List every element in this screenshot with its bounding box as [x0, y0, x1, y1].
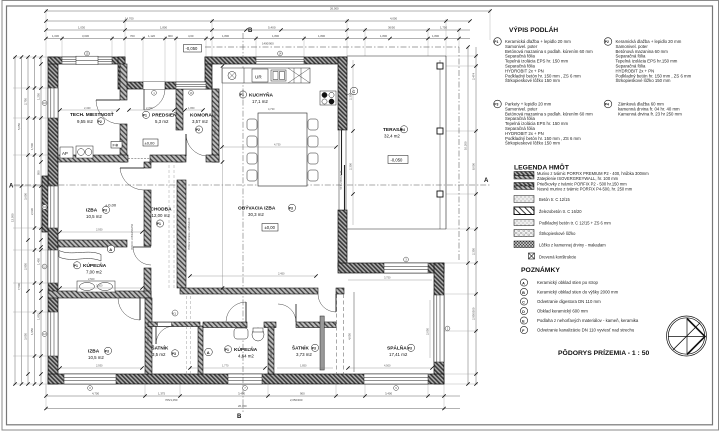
svg-text:C: C — [522, 300, 525, 304]
wall kupelna464 top horiz — [203, 322, 247, 328]
room label SATNIK 35 — [152, 344, 179, 358]
bottom dimension row 2 — [46, 408, 460, 410]
svg-text:ŠATNÍK: ŠATNÍK — [152, 344, 169, 351]
kupelna464 fixtures — [234, 328, 264, 341]
svg-text:P3: P3 — [408, 347, 412, 351]
top dimension row 2 — [46, 20, 470, 22]
svg-text:A: A — [207, 350, 210, 355]
kupelna7 twin basins — [77, 281, 115, 292]
svg-text:Betón tr. C 12/15: Betón tr. C 12/15 — [539, 197, 570, 202]
svg-text:4,730: 4,730 — [274, 142, 281, 146]
V1 circle — [172, 310, 178, 316]
svg-text:VÝPIS PODLÁH: VÝPIS PODLÁH — [509, 25, 558, 34]
note E — [520, 317, 527, 324]
wall spalna top — [338, 263, 444, 273]
tech room appliances — [60, 146, 93, 158]
svg-text:2,750: 2,750 — [24, 98, 28, 105]
logo north arrow — [667, 316, 707, 356]
room label KOMORA — [190, 113, 212, 134]
door satnik373 — [278, 304, 296, 322]
window left wall tech — [48, 88, 58, 118]
svg-text:P1: P1 — [157, 222, 161, 226]
svg-text:1,030: 1,030 — [78, 26, 85, 30]
door tech room — [96, 100, 120, 124]
svg-text:900: 900 — [168, 34, 173, 38]
left dimension col 2 — [21, 57, 23, 384]
svg-text:1,500: 1,500 — [30, 143, 34, 150]
room label SPALNA — [387, 344, 415, 358]
callout circle A kupelna464 — [205, 348, 213, 356]
window bottom wall spalna — [364, 374, 428, 384]
svg-text:2,950: 2,950 — [24, 263, 28, 270]
svg-text:1400/900: 1400/900 — [262, 42, 274, 46]
svg-text:2,050: 2,050 — [426, 328, 430, 335]
svg-text:4,050: 4,050 — [348, 333, 352, 340]
tiny interior dim texts — [84, 106, 391, 368]
legend swatch strkopiesok — [514, 230, 534, 237]
svg-text:3,030: 3,030 — [82, 34, 89, 38]
window bottom wall kupelna464 — [228, 374, 262, 384]
legend swatch podkladny beton — [514, 220, 534, 226]
svg-text:1,250: 1,250 — [37, 93, 41, 100]
wall predsien/komora — [176, 89, 183, 130]
wall left outer — [48, 57, 58, 384]
svg-text:2,950/300: 2,950/300 — [472, 307, 476, 320]
svg-text:Nosné murivo z tvárnic PORFIX: Nosné murivo z tvárnic PORFIX P4-500, hr… — [537, 186, 633, 191]
svg-text:7,00 m2: 7,00 m2 — [86, 270, 102, 275]
walls — [42, 57, 444, 384]
chodba dashed lines — [169, 165, 191, 374]
window spalna top wall (terrace door) — [384, 263, 428, 273]
door chodba-predsien opening — [128, 158, 150, 160]
svg-text:Drevená konštrukcie: Drevená konštrukcie — [539, 254, 577, 259]
svg-text:1,800: 1,800 — [318, 34, 325, 38]
svg-text:3,600: 3,600 — [24, 193, 28, 200]
wall chodba/obyvacia vert — [177, 180, 186, 288]
svg-text:5,400: 5,400 — [268, 26, 276, 30]
dimension ticks right — [466, 45, 477, 385]
elevation box entrance — [184, 45, 202, 53]
dimension ticks bottom — [44, 394, 445, 410]
P2 floor spec — [604, 38, 691, 83]
extension lines — [13, 9, 490, 410]
svg-text:F⊗: F⊗ — [113, 143, 119, 148]
dimension lines group — [15, 11, 490, 409]
svg-text:4,730: 4,730 — [268, 107, 275, 111]
window kitchen top — [256, 57, 304, 64]
svg-text:3,750: 3,750 — [384, 276, 391, 280]
bottom dimension row 1 — [46, 395, 460, 397]
svg-text:2,300: 2,300 — [349, 93, 353, 100]
svg-text:950: 950 — [37, 170, 41, 175]
kitchen counter — [222, 68, 310, 83]
wall obyvacia bottom horiz — [180, 288, 318, 294]
svg-text:PÔDORYS PRÍZEMIA - 1 : 50: PÔDORYS PRÍZEMIA - 1 : 50 — [558, 348, 649, 357]
svg-text:A: A — [484, 178, 489, 184]
legend swatch zelezobeton — [514, 207, 534, 215]
svg-text:Podlaha z nehorľavých materiál: Podlaha z nehorľavých materiálov - kameň… — [537, 318, 639, 323]
svg-text:PORFIX 1/250x250x750: PORFIX 1/250x250x750 — [131, 223, 134, 250]
svg-text:HST 1/3500x2100: HST 1/3500x2100 — [340, 170, 343, 190]
window left wall izba dolna — [48, 312, 58, 356]
room label KUCHYNA — [239, 91, 275, 112]
svg-text:P1: P1 — [143, 114, 147, 118]
door izba horna — [120, 168, 144, 190]
svg-text:4,500: 4,500 — [384, 364, 391, 368]
svg-text:B: B — [248, 28, 253, 34]
legend drevena konstrukcia — [529, 253, 535, 259]
svg-text:Keramický obklad stien do výšk: Keramický obklad stien do výšky 2000 mm — [537, 290, 619, 295]
svg-text:17,1 m2: 17,1 m2 — [252, 99, 268, 104]
svg-text:700: 700 — [130, 34, 135, 38]
right dimension col 2 — [475, 47, 477, 384]
svg-text:UR: UR — [255, 75, 262, 80]
svg-text:PORFIX 1/250x250x750: PORFIX 1/250x250x750 — [214, 108, 217, 135]
spalna thin partition line — [353, 292, 355, 372]
window spalna right wall — [434, 295, 444, 362]
left dimension col 1 — [14, 57, 16, 384]
svg-text:±0,00: ±0,00 — [265, 225, 276, 230]
right dimension col 1 — [467, 47, 469, 384]
svg-text:1,950: 1,950 — [30, 328, 34, 335]
terrace posts — [437, 63, 443, 197]
note C — [520, 298, 527, 305]
svg-text:1,030: 1,030 — [52, 34, 59, 38]
svg-text:4,60: 4,60 — [188, 34, 194, 38]
svg-text:Obklad keramický 600 mm: Obklad keramický 600 mm — [537, 309, 588, 314]
callout circle A kupelna7 — [107, 245, 115, 253]
room label SATNIK 373 — [292, 344, 319, 358]
door komora — [186, 134, 206, 156]
svg-text:30,3 m2: 30,3 m2 — [248, 212, 264, 217]
svg-text:5,050: 5,050 — [17, 123, 21, 130]
svg-text:2,930: 2,930 — [96, 228, 103, 232]
room label PREDSIEN — [142, 111, 177, 125]
room label CHODBA — [151, 207, 173, 228]
P1 floor spec — [494, 38, 593, 83]
svg-text:1,120: 1,120 — [148, 34, 155, 38]
svg-text:Odvetranie kanalizácie DN 110: Odvetranie kanalizácie DN 110 vyviesť na… — [537, 328, 635, 333]
svg-text:2,500: 2,500 — [88, 277, 95, 281]
svg-text:Štrkopieskové lôžko 150 mm: Štrkopieskové lôžko 150 mm — [505, 141, 560, 146]
wall block bottom horiz — [58, 155, 128, 162]
svg-text:Odvetranie digestora DN 110 mm: Odvetranie digestora DN 110 mm — [537, 299, 601, 304]
svg-text:4,000: 4,000 — [390, 17, 397, 21]
door spalna — [318, 294, 336, 312]
svg-text:POZNÁMKY: POZNÁMKY — [521, 265, 560, 274]
left dimension col 3 — [27, 57, 29, 384]
svg-text:P3: P3 — [289, 207, 293, 211]
svg-text:5,3 m2: 5,3 m2 — [155, 119, 169, 124]
terrace outline — [347, 56, 446, 229]
svg-text:2,500: 2,500 — [96, 284, 103, 288]
svg-text:1,800: 1,800 — [272, 34, 279, 38]
wall pilaster left — [42, 176, 48, 232]
svg-text:-0,050: -0,050 — [186, 46, 199, 51]
chairs right — [308, 119, 318, 181]
dimension ticks left — [13, 55, 42, 385]
svg-text:A: A — [9, 184, 14, 190]
svg-text:P1: P1 — [240, 93, 244, 97]
svg-text:P1: P1 — [74, 264, 78, 268]
wall step left of entrance — [118, 57, 125, 89]
svg-text:-0,050: -0,050 — [391, 157, 404, 162]
svg-text:D: D — [522, 310, 525, 314]
svg-text:V1: V1 — [172, 312, 176, 316]
svg-text:±0,00: ±0,00 — [145, 140, 156, 145]
dining table — [258, 113, 307, 186]
wall entrance recessed — [125, 82, 212, 89]
svg-text:26,000: 26,000 — [330, 7, 339, 11]
section line A-A — [14, 184, 490, 186]
svg-text:Keramický obklad stien po stro: Keramický obklad stien po strop — [537, 280, 599, 285]
P4 floor spec — [604, 100, 682, 116]
svg-text:Kamenná drvina fr. 23 hr 250: Kamenná drvina fr. 23 hr 250 mm — [618, 111, 682, 116]
svg-text:1,850: 1,850 — [300, 364, 307, 368]
svg-text:1,800: 1,800 — [160, 26, 167, 30]
room label KUPELNA 464 — [224, 345, 257, 359]
svg-text:26,000: 26,000 — [238, 404, 247, 408]
svg-text:2,930: 2,930 — [96, 364, 103, 368]
tiny dimension texts right rotated — [348, 73, 476, 340]
wall bottom outer — [48, 374, 444, 384]
svg-text:1,770: 1,770 — [222, 364, 229, 368]
svg-text:2,700: 2,700 — [146, 106, 153, 110]
svg-text:705/1,050: 705/1,050 — [165, 398, 178, 402]
svg-text:P3: P3 — [494, 103, 498, 107]
top dimension row 4 — [46, 38, 470, 40]
room label IZBA horna — [86, 206, 110, 219]
svg-text:P2: P2 — [98, 120, 102, 124]
svg-text:1/800x2100: 1/800x2100 — [270, 347, 273, 360]
svg-text:2,450: 2,450 — [278, 272, 285, 276]
svg-text:1,375: 1,375 — [158, 392, 165, 396]
spalna void dashed + wardrobe — [337, 294, 344, 374]
wall right kitchen upper — [338, 57, 347, 130]
svg-text:2,430: 2,430 — [84, 106, 91, 110]
wall right living lower — [338, 210, 347, 268]
svg-text:1,800: 1,800 — [222, 34, 229, 38]
dimension ticks top — [44, 9, 491, 40]
room label IZBA dolna — [88, 347, 112, 360]
legend swatch makadam — [514, 241, 534, 248]
tiny dimension texts bottom — [92, 392, 392, 408]
svg-text:P3: P3 — [312, 347, 316, 351]
window tech top — [62, 56, 112, 64]
svg-text:CHODBA: CHODBA — [151, 207, 173, 213]
svg-text:POSUV. DVERE 1/2050x2100: POSUV. DVERE 1/2050x2100 — [188, 217, 191, 250]
svg-text:1,850: 1,850 — [37, 313, 41, 320]
svg-text:2,050/300: 2,050/300 — [290, 398, 303, 402]
svg-text:P1: P1 — [225, 348, 229, 352]
wall tech/predsien — [120, 64, 127, 100]
svg-text:P2: P2 — [196, 128, 200, 132]
svg-text:A: A — [522, 281, 525, 285]
svg-text:P4: P4 — [401, 128, 405, 132]
svg-text:10,5 m2: 10,5 m2 — [86, 214, 102, 219]
wall top tech block — [48, 57, 125, 64]
svg-text:KOMORA: KOMORA — [190, 113, 212, 119]
callout circle C kitchen — [350, 87, 358, 95]
door izba dolna — [118, 298, 140, 320]
svg-text:4,700: 4,700 — [92, 392, 99, 396]
svg-text:32,4 m2: 32,4 m2 — [384, 134, 400, 139]
svg-text:1,750: 1,750 — [440, 26, 447, 30]
elevation box predsien — [143, 139, 158, 146]
svg-text:Lôžko z kamennej drviny - maka: Lôžko z kamennej drviny - makadam — [539, 242, 606, 247]
svg-text:Železobetón tr. C 16/20: Železobetón tr. C 16/20 — [539, 209, 582, 214]
rotated wall texts — [131, 108, 343, 360]
svg-text:Štrkopieskové lôžko 150 mm: Štrkopieskové lôžko 150 mm — [616, 78, 671, 83]
svg-text:36/50: 36/50 — [388, 26, 395, 30]
svg-text:14,700: 14,700 — [125, 17, 134, 21]
wall stub obyvacia-spalna corner — [336, 288, 344, 294]
wall izba/chodba vert — [144, 162, 151, 168]
window mark circles — [42, 51, 450, 390]
roof overhang dash-dot — [205, 47, 459, 262]
svg-text:2,350: 2,350 — [472, 248, 476, 255]
wardrobe bar — [320, 316, 324, 370]
svg-text:P3: P3 — [172, 352, 176, 356]
svg-text:2,474: 2,474 — [472, 73, 476, 80]
svg-text:3,57 m2: 3,57 m2 — [192, 119, 208, 124]
svg-text:P1: P1 — [494, 40, 498, 44]
door entrance gap — [143, 82, 165, 110]
svg-text:OBÝVACIA IZBA: OBÝVACIA IZBA — [238, 205, 276, 212]
door satnik35 — [156, 326, 174, 344]
svg-text:3,050: 3,050 — [24, 333, 28, 340]
svg-text:2,030: 2,030 — [30, 208, 34, 215]
svg-text:P3: P3 — [105, 350, 109, 354]
tiny dimension texts top — [52, 7, 447, 46]
svg-text:3,73 m2: 3,73 m2 — [296, 352, 312, 357]
door kupelna7 — [133, 247, 151, 265]
svg-text:9,55 m2: 9,55 m2 — [77, 119, 93, 124]
left dimension col 4 — [34, 57, 36, 384]
svg-text:3,400: 3,400 — [385, 392, 392, 396]
svg-text:B: B — [522, 291, 525, 295]
svg-text:1,800: 1,800 — [432, 34, 439, 38]
window entrance side — [176, 82, 206, 89]
chairs left — [247, 119, 257, 181]
svg-text:7,500: 7,500 — [17, 283, 21, 290]
svg-text:E: E — [522, 319, 525, 323]
svg-text:Podkladný betón tr. C 12/15 +: Podkladný betón tr. C 12/15 + ZS 6 mm — [539, 220, 611, 225]
svg-text:10,5 m2: 10,5 m2 — [88, 355, 104, 360]
wall connector right of entrance — [205, 57, 212, 89]
interior dimension lines — [60, 60, 432, 368]
wall komora east — [212, 89, 219, 162]
svg-text:1,450: 1,450 — [37, 258, 41, 265]
legend swatch priecky — [514, 183, 534, 190]
left dimension col 5 — [40, 57, 42, 384]
P3 floor spec — [494, 100, 593, 146]
wall kupelna464/satnik373 vert — [268, 327, 274, 374]
svg-text:± 0,00: ± 0,00 — [105, 203, 117, 208]
note D — [520, 307, 527, 314]
svg-text:10,200: 10,200 — [464, 141, 468, 150]
svg-text:3,450: 3,450 — [238, 392, 245, 396]
legend swatch murivo — [514, 172, 534, 180]
section line B-B — [242, 33, 244, 412]
room label OBYVACIA IZBA — [238, 204, 296, 217]
svg-text:P4: P4 — [605, 103, 609, 107]
svg-text:12,00 m2: 12,00 m2 — [152, 213, 171, 218]
svg-text:AP: AP — [62, 151, 68, 156]
svg-text:C: C — [352, 89, 355, 94]
door leaf lines — [96, 100, 336, 344]
svg-text:P2: P2 — [605, 40, 609, 44]
top dimension row 3 — [46, 29, 470, 31]
wall satnik/koridor vert — [198, 326, 203, 374]
wall izba-dolna/satnik vert — [145, 298, 152, 374]
svg-text:ŠATNÍK: ŠATNÍK — [292, 344, 309, 351]
svg-text:B: B — [237, 414, 242, 420]
wall spalna right — [434, 263, 444, 384]
window bottom wall izba dolna — [64, 374, 116, 384]
room label KUPELNA7 — [73, 261, 106, 281]
door kupelna464 — [226, 302, 246, 322]
svg-text:4,64 m2: 4,64 m2 — [238, 354, 254, 359]
cooktop — [320, 91, 336, 105]
door arcs interior — [96, 100, 336, 344]
tiny dimension texts left rotated — [11, 93, 41, 340]
svg-text:3,5 m2: 3,5 m2 — [152, 352, 166, 357]
svg-text:2,300: 2,300 — [349, 163, 353, 170]
room label TECH. MIESTNOST — [70, 110, 114, 125]
elevation box terasa — [388, 156, 408, 164]
svg-text:900: 900 — [300, 392, 305, 396]
window left wall izba — [48, 186, 58, 228]
svg-text:IZBA: IZBA — [86, 208, 98, 214]
callout box F tech — [111, 142, 122, 149]
wall top kitchen — [205, 57, 347, 64]
note F — [520, 326, 527, 333]
svg-text:1,800: 1,800 — [380, 34, 387, 38]
wall kupelna7 bottom horiz — [48, 291, 151, 298]
window left wall kupelna — [48, 250, 58, 283]
svg-text:IZBA: IZBA — [88, 349, 100, 355]
glass sliding door living room east — [338, 130, 347, 210]
wall izba/kupelna horiz — [58, 240, 127, 247]
wall satnik top — [148, 322, 200, 327]
elevation box obyvacia — [262, 224, 278, 232]
svg-text:1/700x2100: 1/700x2100 — [147, 332, 150, 345]
kupelna7 bathtub — [59, 251, 101, 262]
svg-text:13,050: 13,050 — [11, 213, 15, 222]
svg-text:P3: P3 — [103, 209, 107, 213]
room label TERASA — [383, 126, 408, 139]
svg-text:8,000: 8,000 — [472, 163, 476, 170]
legend swatch beton — [514, 196, 534, 203]
note B — [520, 288, 527, 295]
svg-text:Štrkopieskové lôžko: Štrkopieskové lôžko — [539, 231, 576, 236]
svg-text:1,950: 1,950 — [188, 106, 195, 110]
top dimension row 1 — [46, 10, 490, 12]
svg-text:Zateplenie ISOVERGREYWALL, hr.: Zateplenie ISOVERGREYWALL, hr. 100 mm — [537, 176, 619, 181]
note A — [520, 279, 527, 286]
svg-text:Štrkopieskové lôžko 150 mm: Štrkopieskové lôžko 150 mm — [505, 78, 560, 83]
svg-text:17,41 m2: 17,41 m2 — [389, 352, 408, 357]
svg-text:A: A — [109, 247, 112, 252]
